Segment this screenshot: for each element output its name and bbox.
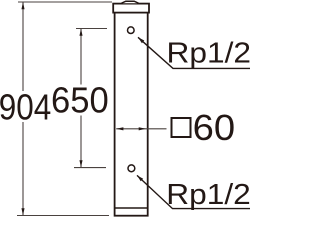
svg-text:Rp1/2: Rp1/2 bbox=[166, 179, 250, 211]
leader arrowhead bottom bbox=[137, 175, 143, 181]
hole bottom circle bbox=[128, 165, 135, 172]
leader line top Rp1/2 bbox=[138, 37, 250, 68]
dimension line 650 upper segment bbox=[80, 29, 82, 85]
column body bbox=[115, 12, 148, 216]
arrowhead width right bbox=[139, 127, 146, 130]
arrowhead 650 bottom bbox=[79, 160, 82, 167]
base plate line bbox=[115, 207, 148, 209]
arrowhead 904 bottom bbox=[21, 208, 24, 215]
svg-text:Rp1/2: Rp1/2 bbox=[167, 38, 251, 70]
svg-text:650: 650 bbox=[51, 80, 109, 121]
extension line top (650) bbox=[76, 28, 107, 30]
arrowhead width left bbox=[116, 127, 123, 130]
svg-text:60: 60 bbox=[193, 107, 236, 148]
dimension line 904 upper segment bbox=[22, 3, 24, 92]
cap top bump bbox=[122, 1, 139, 3]
leader line bottom Rp1/2 bbox=[137, 175, 250, 208]
width dimension line bbox=[116, 128, 166, 130]
cap bbox=[113, 4, 149, 13]
extension line bottom (650) bbox=[74, 167, 106, 169]
arrowhead 650 top bbox=[79, 29, 82, 36]
square symbol bbox=[172, 118, 191, 137]
dimension line 904 lower segment bbox=[22, 122, 24, 215]
svg-text:904: 904 bbox=[0, 86, 51, 127]
dimension line 650 lower segment bbox=[80, 116, 82, 168]
arrowhead 904 top bbox=[21, 2, 24, 9]
hole top circle bbox=[128, 27, 135, 34]
extension line top (904) bbox=[18, 1, 112, 3]
leader arrowhead top bbox=[138, 37, 144, 43]
extension line bottom (904) bbox=[17, 215, 109, 217]
